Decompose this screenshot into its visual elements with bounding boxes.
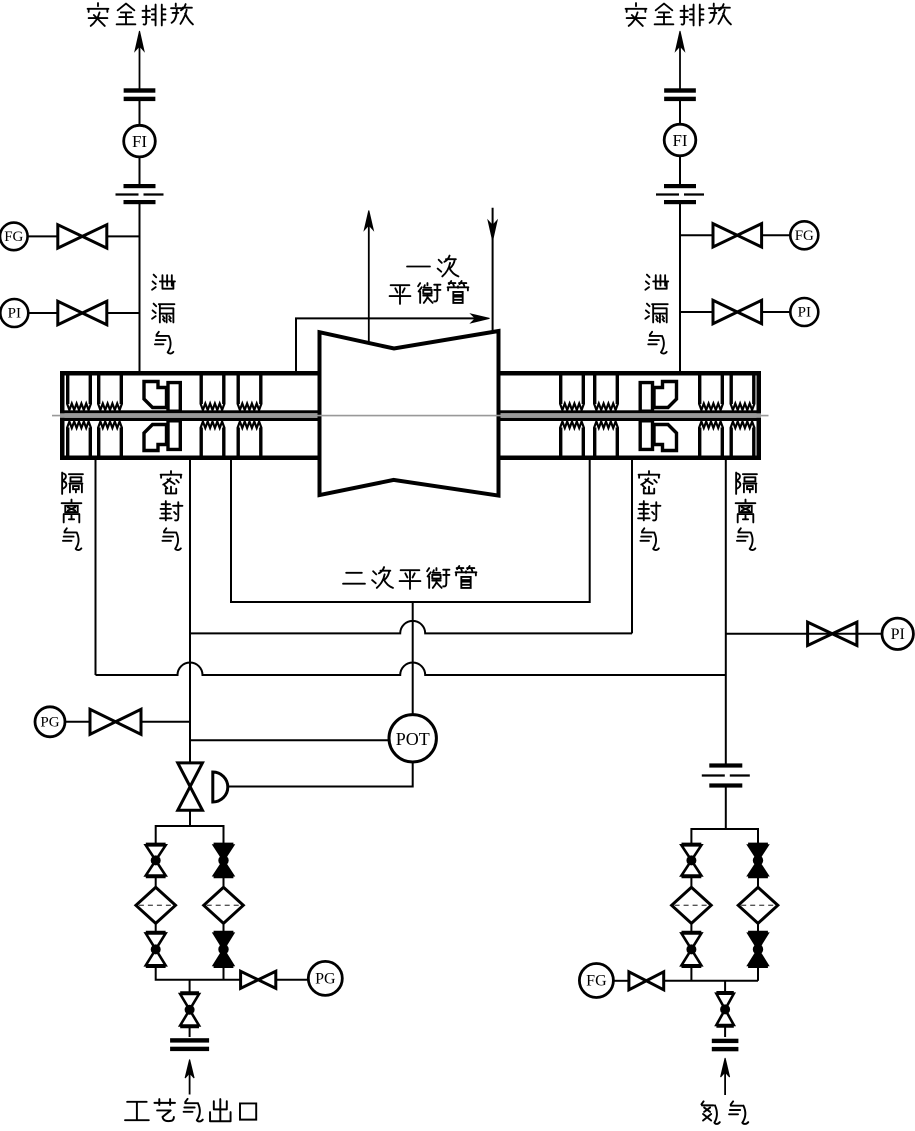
label: secondary balance pipe (二次平衡管) — [343, 566, 476, 589]
wire: actuator signal line — [228, 762, 413, 787]
wire: FG branch — [762, 234, 791, 236]
filter F4 — [738, 887, 778, 923]
arrow: balance pipe into suction — [471, 314, 490, 323]
instrument PI (far right) — [882, 618, 913, 649]
arrow: process gas inflow — [185, 1060, 194, 1095]
wire: process gas inlet stem — [189, 980, 191, 993]
wire: PI branch to vent line — [107, 312, 140, 314]
valve: filter branch valve R1 (open) — [682, 844, 702, 877]
orifice plate on left vent line — [116, 184, 164, 204]
wire: suction line down — [492, 208, 494, 331]
label: isolation gas (隔离气) right — [736, 473, 757, 550]
svg-text:PI: PI — [798, 305, 811, 321]
wire: vent line to seal housing — [679, 204, 681, 371]
wire: filter header left — [156, 826, 224, 844]
valve: right PI isolation valve — [713, 300, 762, 323]
wire: PI branch — [762, 311, 791, 313]
label: safety vent text right (安全排放) — [626, 3, 731, 26]
valve: process gas inlet valve — [180, 993, 199, 1027]
label: nitrogen (氮气) — [701, 1101, 748, 1124]
svg-text:PI: PI — [891, 626, 905, 643]
valve: left FG isolation valve — [58, 225, 107, 248]
valve: filter branch valve R4 (closed) — [748, 932, 768, 966]
flange pair process gas inlet — [170, 1038, 209, 1051]
wire: POT output line — [190, 739, 389, 741]
wire: N2 isolation line upper — [725, 460, 727, 765]
wire: inlet stem — [724, 1026, 726, 1037]
wire: filter header right — [691, 829, 758, 844]
wire: from filters — [691, 923, 758, 932]
labyrinth seal group R4 — [731, 376, 755, 457]
label: safety vent text left (安全排放) — [88, 3, 193, 26]
wire: from filters — [156, 923, 224, 932]
valve: N2 inlet valve — [716, 993, 733, 1027]
svg-text:POT: POT — [396, 729, 430, 749]
wire: N2 junction line — [664, 967, 758, 981]
label: primary balance pipe (一次平衡管) — [390, 256, 469, 304]
wire: PI branch right — [680, 311, 713, 313]
label: leak gas (泄漏气) right — [645, 275, 668, 354]
wire: control valve outlet — [189, 810, 191, 826]
wire: filter outlet junction left — [156, 967, 241, 980]
instrument POT (differential pressure controller) — [389, 715, 436, 762]
wire: seal gas drop line — [189, 460, 191, 763]
compressor body — [320, 331, 499, 496]
instrument FI (left flow indicator) — [124, 125, 156, 157]
arrow: compressor discharge up — [364, 211, 373, 344]
wire: seal gas manifold (line B) — [190, 460, 632, 633]
wire: N2 line lower — [725, 786, 727, 829]
instrument PG (left) — [35, 707, 65, 737]
valve: left PI isolation valve — [58, 301, 107, 324]
wire: to filters — [156, 877, 224, 888]
wire: N2 inlet stem — [724, 981, 726, 993]
label: leak gas (泄漏气) left — [152, 275, 175, 354]
svg-text:PI: PI — [8, 306, 21, 322]
wire: FG branch right — [680, 234, 713, 236]
svg-text:PG: PG — [315, 971, 336, 988]
labyrinth seal group L1 — [67, 376, 91, 457]
label: isolation gas (隔离气) left — [62, 473, 83, 550]
filter F2 — [204, 887, 244, 923]
filter F1 — [136, 887, 176, 923]
wire: POT sensing line vertical — [412, 602, 414, 715]
labyrinth seal group L2 — [98, 376, 122, 457]
actuator: control valve diaphragm — [213, 772, 228, 802]
valve: filter branch valve L1 (open) — [146, 844, 166, 877]
wire: FG branch N2 — [613, 980, 629, 982]
label: seal gas (密封气) left — [160, 471, 182, 550]
shaft left section — [60, 410, 320, 421]
instrument FG (N2) — [579, 964, 613, 998]
wire: vent line to seal housing — [139, 204, 141, 371]
wire: PG branch — [65, 721, 90, 723]
wire: FG branch — [28, 235, 58, 237]
svg-text:FG: FG — [795, 228, 814, 244]
label: process gas outlet (工艺气出口) — [125, 1099, 256, 1122]
wire: primary balance pipe — [296, 318, 486, 371]
orifice plate on N2 line — [702, 763, 750, 787]
svg-text:FI: FI — [132, 132, 147, 151]
wire: FG branch to vent line — [107, 235, 140, 237]
orifice plate on right vent line — [656, 184, 704, 204]
flange pair on left vent line — [124, 88, 156, 101]
instrument FG (right) — [790, 221, 818, 249]
labyrinth seal group L3 — [201, 376, 225, 457]
valve: FG isolation valve N2 — [629, 972, 664, 990]
wire: vent line segment — [679, 156, 681, 184]
wire: vent line segment — [139, 101, 141, 125]
wire: to filters — [691, 877, 758, 888]
wire: secondary balance pipe (line A) — [231, 460, 590, 602]
left seal housing box — [60, 371, 320, 460]
valve: right FG isolation valve — [713, 224, 762, 247]
valve: right PI isolation valve (N2) — [808, 622, 857, 645]
wire: PG branch to drop line — [141, 721, 190, 723]
svg-text:FG: FG — [586, 973, 607, 990]
wire: inlet stem — [189, 1027, 191, 1037]
arrow: vent flow up (right) — [676, 31, 685, 89]
valve: filter branch valve L4 (closed) — [214, 932, 234, 966]
instrument PI (left) — [0, 299, 28, 327]
instrument FI (right flow indicator) — [664, 124, 696, 156]
arrow: N2 inflow — [721, 1058, 730, 1095]
label: seal gas (密封气) right — [638, 471, 660, 550]
valve: seal gas control valve — [178, 763, 203, 810]
labyrinth seal group R1 — [560, 376, 584, 457]
valve: PG2 isolation valve — [241, 971, 276, 988]
labyrinth seal group R3 — [699, 376, 723, 457]
valve: filter branch valve L2 (closed) — [214, 844, 234, 877]
arrow: vent flow up (left) — [135, 31, 144, 89]
instrument FG (left) — [0, 223, 28, 251]
valve: filter branch valve R3 (open) — [682, 932, 702, 966]
svg-text:FG: FG — [4, 229, 23, 245]
wire: vent line segment — [139, 157, 141, 184]
wire: PI branch far right — [726, 633, 882, 635]
shaft centerline — [52, 415, 769, 417]
valve: filter branch valve L3 (open) — [146, 932, 166, 966]
right seal housing box — [500, 371, 761, 460]
svg-text:PG: PG — [40, 714, 59, 730]
svg-text:FI: FI — [672, 131, 687, 150]
instrument PI (right) — [790, 298, 818, 326]
valve: PG isolation valve — [90, 709, 141, 734]
shaft right section — [500, 410, 761, 421]
wire: PI branch — [28, 312, 58, 314]
arrow: suction flow down — [488, 221, 497, 241]
mechanical seal cartridge left — [144, 382, 180, 451]
labyrinth seal group L4 — [238, 376, 262, 457]
wire: vent line segment — [679, 101, 681, 125]
labyrinth seal group R2 — [594, 376, 618, 457]
flange pair on right vent line — [664, 88, 696, 101]
wire: isolation gas manifold (line C) — [96, 460, 726, 675]
valve: filter branch valve R2 (closed) — [748, 844, 768, 877]
wire: PG2 branch — [276, 979, 309, 981]
instrument PG (process gas) — [308, 961, 342, 995]
mechanical seal cartridge right — [640, 382, 676, 451]
flange pair N2 inlet — [712, 1039, 739, 1052]
filter F3 — [672, 887, 712, 923]
